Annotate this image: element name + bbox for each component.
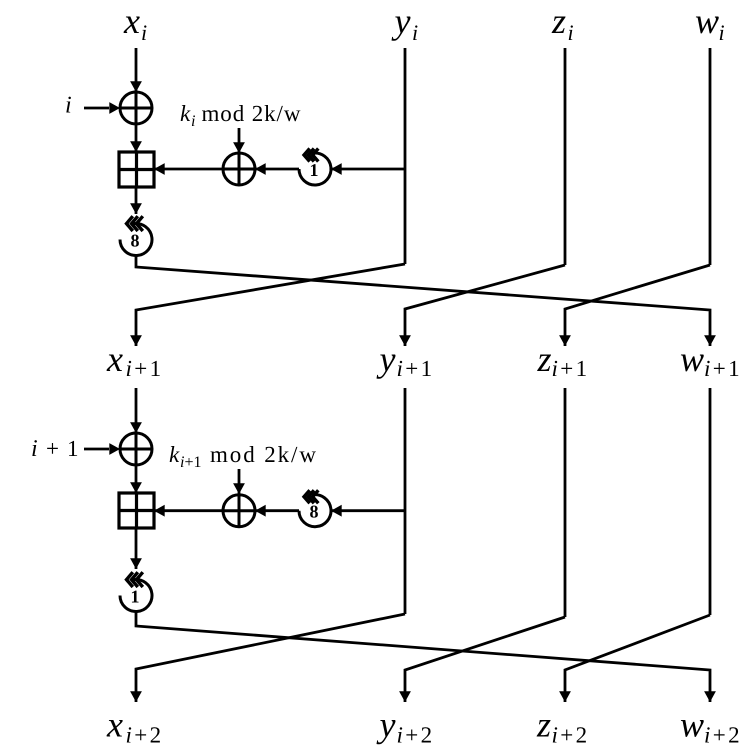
wire y to x_i+2 crossing [136,614,405,702]
svg-text:i+2: i+2 [397,722,435,747]
svg-text:x: x [123,1,140,41]
svg-text:i+2: i+2 [552,722,590,747]
svg-text:k: k [169,442,180,467]
svg-text:z: z [537,339,552,379]
svg-text:1: 1 [310,160,319,180]
svg-text:y: y [377,705,396,745]
svg-text:y: y [392,1,411,41]
svg-text:w: w [695,1,719,41]
svg-text:i: i [191,113,195,130]
wire z_i+1 column [564,388,567,617]
wire z to y_i+1 crossing [405,265,565,346]
rotate-left-1 R1 [299,153,331,185]
rotate-left-8 R2 [120,223,152,255]
wire w to z_i+2 crossing [565,615,710,702]
wire xor U3 to adder A2 [135,465,138,493]
wire y_i column [404,48,407,264]
svg-text:mod 2k/w: mod 2k/w [210,442,318,467]
svg-text:mod 2k/w: mod 2k/w [202,101,302,126]
wire xor U4 to adder A2 [154,509,223,512]
svg-text:i+1: i+1 [552,356,590,381]
svg-text:1: 1 [131,587,140,607]
svg-text:i: i [65,93,72,119]
wire k_i into xor U2 [238,128,241,153]
wire z to y_i+2 crossing [405,617,565,702]
wire adder A2 to rotate R4 [135,528,138,569]
wire xor U1 to adder A1 [135,124,138,152]
svg-text:x: x [106,339,123,379]
wire k_i+1 into xor U4 [238,469,241,494]
xor U1 [120,92,152,124]
rotate-left-8 R3 [299,495,331,527]
svg-text:8: 8 [310,502,319,522]
svg-text:i+1: i+1 [397,356,435,381]
wire w to z_i+1 crossing [565,265,710,346]
wire x_i into xor U1 [135,48,138,92]
xor U4 [223,495,255,527]
svg-text:w: w [680,339,704,379]
wire w_i column [709,48,712,265]
wire x_i+1 into xor U3 [135,388,138,433]
svg-text:i+2: i+2 [126,722,164,747]
svg-text:+: + [46,436,59,461]
svg-text:w: w [680,705,704,745]
wire i into xor U1 [84,107,109,110]
wire x to w_i+1 crossing [136,256,710,347]
svg-text:8: 8 [131,231,140,251]
modular adder A2 [119,493,154,528]
svg-text:k: k [180,101,191,126]
wire adder A1 to rotate R2 [135,187,138,214]
svg-text:y: y [377,339,396,379]
svg-text:i: i [31,436,38,462]
wire R1 to xor U2 [255,168,299,171]
wire R3 to xor U4 [255,509,299,512]
wire y column to R3 [331,509,405,512]
wire y column to R1 [331,168,405,171]
xor U3 [120,433,152,465]
xor U2 [223,153,255,185]
rotate-left-1 R4 [120,579,152,611]
svg-text:i: i [719,20,725,45]
svg-text:1: 1 [67,436,79,461]
wire w_i+1 column [709,388,712,615]
svg-text:z: z [551,1,566,41]
svg-text:i: i [412,20,418,45]
wire xor U2 to adder A1 [154,168,223,171]
wire i+1 into xor U3 [84,448,109,451]
svg-text:x: x [106,705,123,745]
svg-text:i+2: i+2 [704,722,742,747]
wire z_i column [564,48,567,265]
wire y_i+1 column [404,388,407,614]
svg-text:z: z [536,705,551,745]
svg-text:i: i [141,20,147,45]
svg-text:i+1: i+1 [180,454,201,471]
wire y to x_i+1 crossing [136,264,405,346]
wire x to w_i+2 crossing [136,612,710,703]
svg-text:i+1: i+1 [704,356,742,381]
svg-text:i+1: i+1 [126,356,164,381]
modular adder A1 [119,152,154,187]
svg-text:i: i [568,20,574,45]
